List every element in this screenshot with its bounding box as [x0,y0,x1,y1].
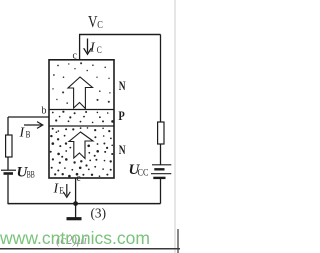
junction dot emitter/rail [73,201,78,206]
svg-text:E: E [59,186,64,196]
wire base branch vertical upper [7,117,9,135]
svg-text:BB: BB [27,170,35,180]
wire bottom rail [8,203,161,205]
electron flow arrow in top N region [68,77,93,109]
wire collector drop to box [79,35,81,61]
junction line P-N [49,125,114,127]
wire resistor Rc to battery UCC [160,144,162,165]
resistor Rc [158,122,164,144]
svg-text:N: N [119,78,126,93]
carrier dots in bottom N region [50,127,113,177]
arrow IB (right) [24,122,43,129]
battery UCC [151,165,171,178]
wire resistor to battery UBB [7,157,9,170]
svg-text:b: b [42,106,47,117]
label UBB [17,165,35,181]
svg-text:C: C [97,20,103,31]
svg-text:www.cntronics.com: www.cntronics.com [0,228,150,248]
svg-text:B: B [26,130,31,140]
wire battery UBB to bottom rail [7,175,9,204]
svg-text:e: e [77,173,82,184]
wire top horizontal from Vc node to collector resistor branch [79,34,161,36]
carrier dots in top N region [52,62,110,104]
carrier dots in P region [52,111,114,124]
node Vc [88,12,103,31]
svg-text:CC: CC [138,168,149,178]
label IB [19,126,31,141]
svg-text:P: P [118,108,124,123]
label IE [53,182,65,197]
wire collector branch vertical upper [160,35,162,123]
transistor body (NPN structure box) [49,60,114,178]
label UCC [129,162,149,178]
svg-text:(3): (3) [91,207,107,222]
wire base horizontal [8,116,49,118]
label IC [89,41,102,56]
wire battery UCC to bottom rail [160,179,162,204]
arrow IE (down) [63,184,70,197]
junction line N-P [49,109,114,111]
electron flow arrow in bottom N region [69,132,93,159]
arrow IC (down) [84,39,92,55]
ground [67,217,82,220]
battery UBB [1,170,16,173]
scan border faint vertical [174,0,176,253]
resistor Rb [6,135,12,157]
svg-text:C: C [97,45,102,55]
svg-text:N: N [119,142,126,157]
wire emitter drop through rail to ground [75,178,77,218]
